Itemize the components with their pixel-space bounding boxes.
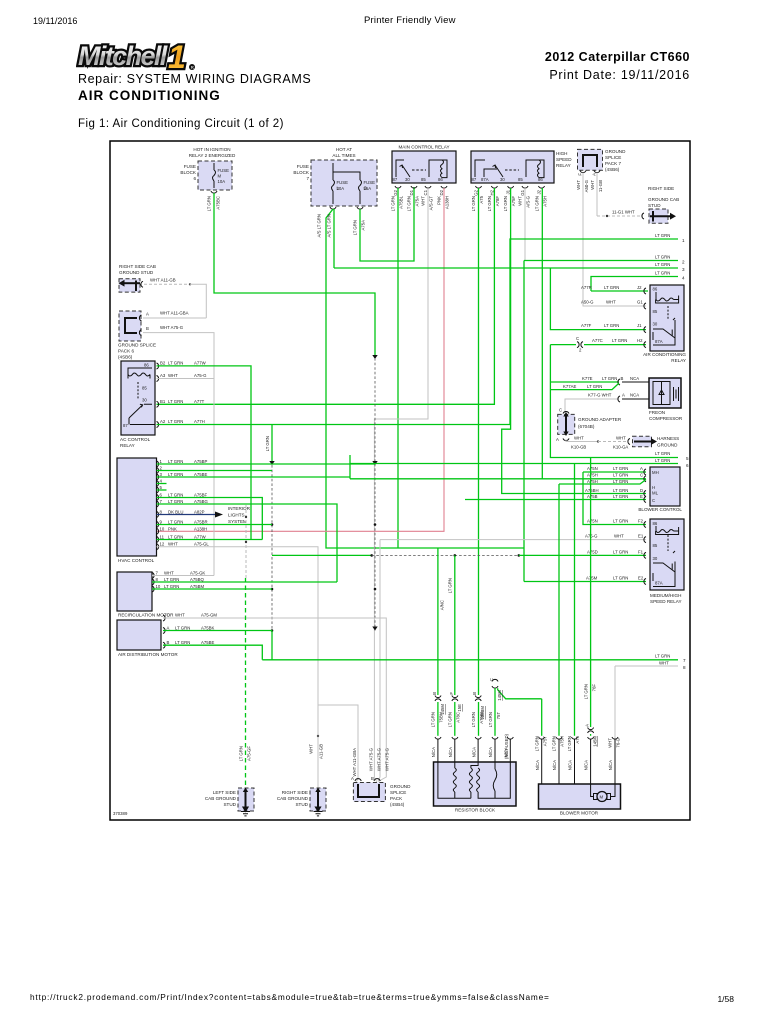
- diagram frame: [110, 141, 690, 820]
- svg-text:FUSE: FUSE: [218, 168, 230, 173]
- svg-text:A75BE: A75BE: [194, 472, 208, 477]
- HVAC pin 10 connector: [157, 528, 159, 534]
- U2 pin H2 connector: [491, 186, 497, 188]
- wire A75-G WHT E1: [380, 539, 646, 541]
- svg-text:B: B: [432, 692, 437, 695]
- svg-text:AIR DISTRIBUTION MOTOR: AIR DISTRIBUTION MOTOR: [118, 652, 178, 657]
- svg-text:N/CA: N/CA: [448, 747, 453, 757]
- HVAC control module: [117, 458, 157, 556]
- svg-text:FUSE: FUSE: [337, 180, 349, 185]
- M3 pin 5 wire WHT 76-G: [612, 737, 618, 739]
- svg-text:A138H: A138H: [445, 196, 450, 209]
- svg-text:LT GRN: LT GRN: [168, 472, 183, 477]
- wire WHT A50-G (splice7 F to AC relay G1): [583, 173, 646, 307]
- wire WHT A75-G (splice6 B down to recirc pin 7): [143, 333, 214, 576]
- svg-text:WHT: WHT: [590, 180, 595, 190]
- wire WHT A75-GK: [152, 575, 214, 577]
- svg-text:LT GRN: LT GRN: [168, 459, 183, 464]
- K1 pin B1 connector: [157, 401, 159, 407]
- AC relay G1 connector: [644, 303, 646, 309]
- svg-text:11-G1 WHT: 11-G1 WHT: [612, 210, 635, 215]
- svg-text:LT GRN: LT GRN: [168, 520, 183, 525]
- svg-text:C: C: [489, 678, 494, 681]
- svg-text:30: 30: [653, 322, 658, 327]
- svg-text:FUSE: FUSE: [184, 164, 196, 169]
- air conditioning relay K2: [650, 285, 684, 351]
- blower motor M3: [539, 784, 621, 809]
- svg-text:86: 86: [653, 521, 658, 526]
- wire LT GRN A75BF: [157, 498, 263, 540]
- svg-text:C: C: [167, 613, 170, 618]
- svg-text:LT GRN: LT GRN: [164, 577, 179, 582]
- svg-text:AIR CONDITIONING: AIR CONDITIONING: [643, 352, 686, 357]
- svg-text:12: 12: [160, 542, 165, 547]
- U2 pin G1 connector: [522, 186, 528, 188]
- svg-text:WHT: WHT: [175, 613, 185, 618]
- svg-text:K10-GB: K10-GB: [571, 445, 586, 450]
- wire DK BLU A82P to interior lights: [157, 514, 216, 516]
- svg-text:C: C: [576, 336, 579, 341]
- svg-text:LIGHTS: LIGHTS: [228, 513, 245, 518]
- svg-text:J1: J1: [506, 189, 511, 194]
- svg-text:WHT A11-GB: WHT A11-GB: [150, 278, 176, 283]
- svg-text:LT GRN: LT GRN: [613, 494, 628, 499]
- svg-text:M: M: [600, 795, 604, 800]
- svg-text:E1: E1: [638, 534, 644, 539]
- svg-text:SPLICE: SPLICE: [605, 155, 621, 160]
- svg-text:25A: 25A: [364, 186, 372, 191]
- off-page wire 8: [615, 665, 678, 667]
- fuse block 7: [311, 160, 377, 206]
- svg-text:A77T: A77T: [194, 399, 205, 404]
- svg-text:K77E: K77E: [582, 376, 593, 381]
- svg-text:WHT: WHT: [606, 300, 616, 305]
- svg-text:A/S LT GRN: A/S LT GRN: [327, 214, 332, 237]
- svg-text:GROUND ADAPTER: GROUND ADAPTER: [578, 417, 622, 422]
- svg-text:RELAY 2 ENERGIZED: RELAY 2 ENERGIZED: [189, 153, 236, 158]
- svg-text:ML: ML: [652, 491, 659, 496]
- svg-text:A75BG: A75BG: [194, 499, 209, 504]
- svg-text:A78F: A78F: [495, 196, 500, 207]
- wire A75-G WHT down to splice (E1 corner): [378, 540, 380, 781]
- svg-text:INTERIOR: INTERIOR: [228, 506, 251, 511]
- splice 7 pin F connector: [580, 171, 586, 173]
- svg-text:5: 5: [686, 456, 689, 461]
- splice 6 pin A connector: [139, 315, 141, 321]
- wire LT GRN A75BL: [397, 188, 399, 548]
- off-page wire 3 (from fuse L): [334, 267, 678, 269]
- svg-text:A75: A75: [575, 735, 580, 743]
- U1 pin D1 connector: [411, 186, 417, 188]
- K1 internal link: [137, 382, 139, 399]
- svg-text:RELAY: RELAY: [556, 163, 571, 168]
- R1 internal resistors: [438, 762, 510, 798]
- wire WHT A11-GB (stud branch): [317, 735, 319, 737]
- svg-text:SPEED RELAY: SPEED RELAY: [650, 599, 682, 604]
- svg-text:LT GRN: LT GRN: [567, 736, 572, 751]
- svg-text:HOT IN IGNITION: HOT IN IGNITION: [193, 147, 230, 152]
- svg-text:3: 3: [682, 267, 685, 272]
- svg-text:PNK: PNK: [437, 196, 442, 205]
- wire A75D LT GRN F1: [272, 554, 372, 556]
- svg-text:A75F: A75F: [511, 196, 516, 207]
- svg-text:C1: C1: [423, 189, 428, 195]
- svg-text:A77W: A77W: [194, 535, 207, 540]
- svg-text:A: A: [556, 437, 559, 442]
- svg-text:WHT: WHT: [616, 436, 626, 441]
- U1 internal contact: [396, 160, 410, 177]
- svg-text:LT GRN: LT GRN: [584, 684, 589, 699]
- svg-text:A/S-GT: A/S-GT: [429, 196, 434, 211]
- svg-text:A/NC: A/NC: [440, 600, 445, 610]
- svg-text:A/S LT GRN: A/S LT GRN: [317, 214, 322, 237]
- wire LT GRN A75BG: [157, 504, 338, 582]
- svg-text:LT GRN: LT GRN: [239, 746, 244, 761]
- svg-text:A3: A3: [160, 373, 166, 378]
- svg-text:N/CA: N/CA: [568, 760, 573, 770]
- svg-text:H: H: [652, 485, 655, 490]
- svg-text:SPEED: SPEED: [556, 157, 572, 162]
- svg-text:86: 86: [144, 363, 149, 368]
- svg-text:8: 8: [683, 665, 686, 670]
- wire LT GRN A75BK: [163, 630, 272, 632]
- svg-text:N/CA: N/CA: [431, 747, 436, 757]
- svg-text:B: B: [621, 376, 624, 381]
- svg-text:6: 6: [193, 176, 196, 181]
- svg-text:PACK 7: PACK 7: [605, 161, 621, 166]
- svg-text:DK BLU: DK BLU: [168, 510, 184, 515]
- svg-text:PACK: PACK: [390, 796, 403, 801]
- svg-text:A75BF: A75BF: [194, 493, 208, 498]
- svg-text:PNK: PNK: [168, 526, 177, 531]
- ground splice pack 7: [578, 149, 603, 170]
- svg-text:A75BM: A75BM: [190, 584, 205, 589]
- wire LT GRN A75BP: [157, 463, 376, 465]
- off-page wire 6: [350, 463, 678, 465]
- svg-text:LT GRN: LT GRN: [552, 736, 557, 751]
- svg-text:LT GRN: LT GRN: [448, 578, 453, 593]
- svg-text:FUSE: FUSE: [364, 180, 376, 185]
- svg-text:LT GRN: LT GRN: [613, 550, 628, 555]
- wire LT GRN A75BQ: [152, 581, 337, 583]
- wire A75B LT GRN E: [465, 499, 646, 501]
- wire LT GRN A77W (pin 11 row): [157, 539, 263, 541]
- freon compressor: [649, 378, 681, 408]
- svg-text:A75H: A75H: [587, 473, 598, 478]
- HVAC pin 3 connector: [157, 474, 159, 480]
- svg-text:A77C: A77C: [592, 338, 603, 343]
- svg-text:LT GRN: LT GRN: [655, 458, 670, 463]
- svg-text:LT GRN: LT GRN: [604, 285, 619, 290]
- svg-text:ALL TIMES: ALL TIMES: [332, 153, 355, 158]
- wire LT GRN A75F (U2 J1 down to blower control D): [502, 188, 646, 494]
- blower control module: [650, 467, 680, 506]
- wire 5 vertical (H2 branch down): [550, 345, 678, 458]
- svg-text:B: B: [472, 692, 477, 695]
- svg-text:N/CA: N/CA: [472, 747, 477, 757]
- svg-text:RIGHT SIDE: RIGHT SIDE: [282, 790, 308, 795]
- svg-text:LT GRN: LT GRN: [535, 736, 540, 751]
- svg-text:GROUND CAB: GROUND CAB: [648, 197, 679, 202]
- svg-text:WHT: WHT: [659, 661, 669, 666]
- AC relay J2 connector: [644, 288, 646, 294]
- svg-text:LT GRN: LT GRN: [613, 488, 628, 493]
- U2 internal contact: [475, 160, 503, 177]
- svg-text:N/CA: N/CA: [488, 747, 493, 757]
- svg-text:85: 85: [142, 386, 147, 391]
- high speed relay U2: [471, 151, 554, 183]
- M1 pin 10 connector: [152, 586, 154, 592]
- HVAC pin 11 connector: [157, 537, 159, 543]
- wire A/S LT GRN (branch to x326): [326, 209, 524, 548]
- svg-text:CAB GROUND: CAB GROUND: [277, 796, 309, 801]
- svg-text:F: F: [578, 173, 583, 176]
- svg-text:A77W: A77W: [194, 361, 207, 366]
- svg-text:A75N: A75N: [587, 519, 598, 524]
- Mitchell1 logo: [76, 38, 236, 74]
- pin connector fuse M: [211, 191, 217, 193]
- svg-text:A75BR: A75BR: [194, 520, 208, 525]
- splice 7 pin A connector: [594, 171, 600, 173]
- svg-text:6: 6: [686, 463, 689, 468]
- svg-text:A50-G: A50-G: [581, 300, 594, 305]
- svg-text:B1: B1: [160, 399, 166, 404]
- wire A75H LT GRN (merge row): [559, 480, 646, 485]
- svg-text:G2: G2: [474, 189, 479, 195]
- svg-text:E: E: [640, 494, 643, 499]
- svg-text:30: 30: [653, 556, 658, 561]
- svg-text:85: 85: [653, 543, 658, 548]
- svg-text:F1: F1: [638, 550, 644, 555]
- svg-text:PACK 6: PACK 6: [118, 349, 134, 354]
- svg-text:WHT A75-G: WHT A75-G: [160, 325, 184, 330]
- wire LT GRN A77W (K1 B2 to HVAC 11): [157, 366, 252, 540]
- svg-text:A75BP: A75BP: [194, 459, 208, 464]
- svg-text:BLOCK: BLOCK: [180, 170, 197, 175]
- svg-text:LT GRN: LT GRN: [604, 323, 619, 328]
- svg-text:LT GRN: LT GRN: [175, 626, 190, 631]
- M2 pin C connector: [163, 615, 165, 621]
- svg-text:SYSTEM: SYSTEM: [228, 519, 247, 524]
- svg-text:C: C: [559, 408, 562, 413]
- svg-text:LT GRN: LT GRN: [407, 196, 412, 211]
- svg-text:A75BK: A75BK: [201, 626, 215, 631]
- svg-text:BLOWER CONTROL: BLOWER CONTROL: [638, 507, 682, 512]
- svg-text:D1: D1: [409, 189, 414, 195]
- svg-text:A75-GK: A75-GK: [190, 571, 205, 576]
- svg-text:87A: 87A: [655, 581, 663, 586]
- splice bus vertical x375: [374, 358, 376, 631]
- wire WHT 76-G (blower motor 5): [614, 666, 616, 758]
- svg-text:N/CA: N/CA: [584, 760, 589, 770]
- svg-text:WHT: WHT: [168, 373, 178, 378]
- HVAC pin 7 connector: [157, 501, 159, 507]
- wire K77AE LT GRN: [550, 383, 619, 390]
- wire LT GRN A75H (U2 J2 down to blower control C): [541, 188, 543, 479]
- svg-text:87A: 87A: [481, 177, 489, 182]
- splice bus vertical x272: [271, 425, 273, 463]
- svg-text:GROUND STUD: GROUND STUD: [119, 270, 154, 275]
- svg-text:7: 7: [306, 176, 309, 181]
- svg-text:LT GRN: LT GRN: [353, 220, 358, 235]
- svg-text:E2: E2: [638, 576, 644, 581]
- svg-text:30A: 30A: [337, 186, 345, 191]
- svg-text:WHT A11-GBA: WHT A11-GBA: [160, 311, 189, 316]
- svg-text:LT GRN: LT GRN: [168, 399, 183, 404]
- wire LT GRN A75BE (M2 B to off-page 7): [163, 645, 262, 660]
- svg-text:LT GRN: LT GRN: [655, 654, 670, 659]
- svg-text:(4SB6): (4SB6): [605, 167, 620, 172]
- svg-text:LT GRN: LT GRN: [655, 451, 670, 456]
- svg-text:A: A: [622, 393, 625, 398]
- M1 pin 7 connector: [152, 573, 154, 579]
- wire A77C LT GRN H2: [550, 344, 646, 346]
- svg-text:GROUND: GROUND: [657, 443, 678, 448]
- HVAC pin 12 connector: [157, 544, 159, 550]
- svg-text:AC CONTROL: AC CONTROL: [120, 437, 151, 442]
- K1 pin B2 connector: [157, 363, 159, 369]
- svg-text:10: 10: [160, 526, 165, 531]
- internal feed wire: [333, 163, 360, 180]
- svg-text:A75-G: A75-G: [585, 534, 598, 539]
- svg-text:N/CA: N/CA: [504, 747, 509, 757]
- svg-text:A75BL: A75BL: [399, 195, 404, 209]
- svg-text:11: 11: [160, 535, 165, 540]
- svg-text:J2: J2: [637, 285, 642, 290]
- main control relay U1: [392, 151, 456, 183]
- svg-text:A75H: A75H: [587, 479, 598, 484]
- svg-text:87: 87: [123, 423, 128, 428]
- svg-text:LT GRN: LT GRN: [175, 640, 190, 645]
- svg-text:A75: A75: [479, 195, 484, 203]
- svg-text:CAB GROUND: CAB GROUND: [205, 796, 237, 801]
- wire A75N LT GRN F2: [583, 472, 646, 525]
- U1 pin D2 connector: [441, 186, 447, 188]
- svg-text:A75BE: A75BE: [201, 640, 215, 645]
- R1 pin 4 wire LT GRN 75T: [498, 688, 542, 699]
- svg-text:HVAC CONTROL: HVAC CONTROL: [118, 558, 155, 563]
- K3 contact: [653, 551, 675, 572]
- svg-text:WHT A75-G: WHT A75-G: [369, 747, 374, 771]
- wire 2 vertical down to E2: [523, 261, 525, 582]
- M3 pin 4 wire LT GRN 76F: [590, 458, 592, 728]
- svg-text:A75BH: A75BH: [585, 488, 599, 493]
- svg-text:75T: 75T: [496, 712, 501, 720]
- HVAC pin 9 connector: [157, 522, 159, 528]
- svg-text:HARNESS: HARNESS: [657, 436, 679, 441]
- svg-text:30: 30: [142, 398, 147, 403]
- svg-text:87: 87: [472, 177, 477, 182]
- svg-text:BLOWER MOTOR: BLOWER MOTOR: [560, 811, 599, 816]
- pin connector fuse L: [330, 207, 336, 209]
- wire LT GRN A77H (K1 A2 to off-page 1): [157, 239, 679, 425]
- K2 contact: [653, 318, 675, 338]
- svg-text:WHT A75-G: WHT A75-G: [377, 747, 382, 771]
- svg-text:15E: 15E: [457, 704, 462, 712]
- M2 pin A connector: [163, 628, 165, 634]
- fuse L 30A: [332, 180, 335, 204]
- svg-text:LT GRN: LT GRN: [613, 519, 628, 524]
- svg-text:LT GRN: LT GRN: [168, 419, 183, 424]
- U2 pin G2 connector: [476, 186, 482, 188]
- svg-text:B: B: [371, 776, 374, 781]
- svg-text:10: 10: [156, 584, 161, 589]
- splice 4SB4 pin A connector: [355, 779, 361, 781]
- svg-text:RIGHT SIDE CAB: RIGHT SIDE CAB: [119, 264, 156, 269]
- svg-text:LT GRN: LT GRN: [391, 196, 396, 211]
- M1 pin 8 connector: [152, 579, 154, 585]
- wire WHT A11-GBA: [143, 317, 206, 319]
- wire A75M LT GRN E2: [524, 581, 646, 583]
- svg-text:BLOCK: BLOCK: [293, 170, 310, 175]
- svg-text:LT GRN: LT GRN: [168, 493, 183, 498]
- fuse G 25A: [359, 180, 362, 204]
- U2 coil: [526, 160, 544, 178]
- resistor block R1: [434, 762, 517, 806]
- svg-text:LT GRN: LT GRN: [535, 196, 540, 211]
- svg-text:SPLICE: SPLICE: [390, 790, 406, 795]
- svg-text:HOT AT: HOT AT: [336, 147, 352, 152]
- svg-text:B: B: [146, 326, 149, 331]
- R1 pin 2 wire LT GRN A78C: [454, 555, 456, 695]
- svg-text:30: 30: [405, 177, 410, 182]
- M3 motor symbol: [597, 792, 607, 802]
- splice 6 pin B connector: [139, 330, 141, 336]
- wire WHT A11-GB dashed: [144, 283, 190, 285]
- svg-text:STUD: STUD: [223, 802, 236, 807]
- svg-text:A77H: A77H: [194, 419, 205, 424]
- svg-text:11-GB: 11-GB: [598, 180, 603, 192]
- svg-text:H2: H2: [637, 338, 643, 343]
- svg-text:LT GRN: LT GRN: [448, 712, 453, 727]
- svg-text:370389: 370389: [113, 811, 128, 816]
- svg-text:G1: G1: [637, 300, 643, 305]
- svg-text:A77F: A77F: [581, 323, 592, 328]
- svg-text:FREON: FREON: [649, 410, 665, 415]
- U1 pin G2 connector: [395, 186, 401, 188]
- U1 coil: [429, 160, 447, 178]
- wire A/S LT GRN (straight to wire 3): [333, 209, 335, 268]
- svg-text:A2: A2: [160, 419, 166, 424]
- svg-text:A: A: [592, 173, 597, 176]
- svg-text:A75-G: A75-G: [194, 373, 207, 378]
- svg-text:HIGH: HIGH: [556, 151, 567, 156]
- svg-text:86: 86: [653, 287, 658, 292]
- svg-text:A75B: A75B: [587, 494, 598, 499]
- M2 pin B connector: [163, 642, 165, 648]
- svg-text:LT GRN: LT GRN: [265, 436, 270, 451]
- U2 pin J2 connector: [539, 186, 545, 188]
- svg-text:(4SB6): (4SB6): [118, 355, 133, 360]
- svg-text:LT GRN: LT GRN: [503, 196, 508, 211]
- svg-text:A50-G: A50-G: [584, 179, 589, 192]
- svg-text:GROUND: GROUND: [605, 149, 626, 154]
- svg-text:A75D: A75D: [587, 550, 598, 555]
- svg-text:LT GRN: LT GRN: [612, 338, 627, 343]
- svg-text:(6704B): (6704B): [578, 424, 595, 429]
- svg-text:COMPRESSOR: COMPRESSOR: [649, 416, 683, 421]
- svg-text:LT GRN: LT GRN: [164, 584, 179, 589]
- svg-text:A/S-G: A/S-G: [526, 195, 531, 207]
- svg-text:F2: F2: [638, 519, 644, 524]
- U1 pin C1 connector: [425, 186, 431, 188]
- wire LT GRN A78F (U2 H2 down to A77T row): [157, 188, 495, 404]
- svg-text:85: 85: [518, 177, 523, 182]
- M3 pin 2 wire LT GRN A75H: [558, 484, 560, 736]
- svg-text:WHT: WHT: [574, 436, 584, 441]
- svg-text:(4SB4): (4SB4): [390, 802, 405, 807]
- svg-text:WHT: WHT: [309, 744, 314, 754]
